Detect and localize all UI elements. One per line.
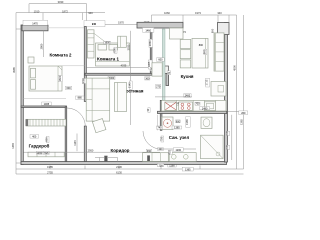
svg-text:940: 940 [88,11,93,15]
hall cabinet corridor [143,153,169,162]
shaft top right [218,23,230,35]
toilet bathroom [201,117,212,128]
dim line left vertical [11,13,21,174]
svg-text:800: 800 [199,44,204,47]
svg-text:1600: 1600 [58,75,62,81]
sink with X [165,102,177,110]
svg-text:1480: 1480 [202,107,208,110]
svg-text:2130: 2130 [116,165,122,169]
tall cabinet kitchen right [214,33,224,71]
dim 4035 living [86,61,150,68]
outer wall bottom [21,162,227,165]
dim vertical inside room1 [129,31,131,125]
vanity bathroom bottom [169,153,196,162]
armchair living (tilted) [92,119,106,133]
svg-text:1365: 1365 [185,168,191,171]
label 2060 rotated on wall [81,78,86,84]
dining table group [192,38,208,68]
svg-text:6130: 6130 [116,170,122,174]
label 420 [177,102,182,106]
svg-text:3030: 3030 [127,44,131,50]
dim line 2400 kitchen [155,96,192,98]
room2 bottom light line [23,97,66,99]
bed room2 [29,66,62,91]
svg-text:460: 460 [147,150,152,153]
svg-text:880: 880 [78,97,83,100]
shoe boxes wardrobe bottom [28,151,64,157]
svg-text:600: 600 [176,120,181,123]
wardrobe top wall [21,106,67,107]
kitchen upper cabinet [170,28,184,39]
bed room1 [87,30,129,66]
dim vertical corridor [73,134,77,152]
svg-text:600: 600 [45,137,49,142]
dim vertical short bath right [231,115,233,160]
svg-text:1200: 1200 [176,149,182,152]
svg-text:4500: 4500 [233,65,237,71]
svg-text:1985: 1985 [47,165,53,169]
svg-text:340: 340 [217,11,222,15]
window room2 (faint) [48,27,84,29]
label 460 boxed corridor [146,149,152,153]
svg-text:3030: 3030 [58,0,64,4]
label 740 boxed [156,126,162,130]
dim line top right [152,11,230,22]
svg-text:2060: 2060 [81,78,85,84]
entrance door [95,156,118,162]
svg-text:4035: 4035 [121,64,127,68]
label rotated bathroom [185,117,190,127]
outer wall top room2 [22,25,48,31]
wardrobe hanger rail [26,119,67,126]
washing machine bathroom [162,117,173,130]
svg-text:738: 738 [159,164,164,167]
svg-text:2860: 2860 [148,40,152,46]
svg-text:1365: 1365 [174,127,180,130]
label 880 on wall [75,96,84,100]
label 600 room2 [65,86,71,90]
outer wall left [21,25,23,165]
rotated label on kitchen wall lower [147,60,152,69]
label 1713 rotated kitchen [205,78,210,87]
closet column room1 left [87,30,94,58]
dim line right verticals [228,15,249,169]
svg-text:1365: 1365 [185,119,189,125]
svg-text:940: 940 [92,23,97,26]
svg-text:2950: 2950 [88,148,94,152]
chair room1 [118,36,127,47]
svg-text:1713: 1713 [205,79,209,85]
svg-text:1190: 1190 [169,165,175,168]
nightstand room2 [28,57,34,63]
dim line top row2 [16,9,105,20]
label 400 wardrobe [30,135,39,139]
label 270 right of band [167,71,171,75]
svg-text:3985: 3985 [12,67,16,73]
small table kitchen right [211,82,226,97]
bathroom left wall upper [160,100,162,130]
svg-text:1973: 1973 [195,11,201,15]
svg-text:1465: 1465 [11,142,15,148]
svg-text:1145: 1145 [73,140,77,146]
svg-text:600: 600 [113,48,117,53]
label 1480 below counter [200,107,210,111]
svg-text:1060: 1060 [164,11,170,15]
dim line top row3 (window room1) [105,20,137,24]
dining chairs [180,40,191,49]
label 270 lower stub [156,84,161,88]
shower [201,135,224,159]
kitchen tall cabinet band left [162,29,165,101]
outer wall top kitchen [137,22,183,28]
svg-text:1470: 1470 [32,22,38,25]
svg-text:2400: 2400 [185,95,191,98]
label 1465 after text [45,136,49,142]
label box 940 [84,21,105,27]
sofa living [86,78,110,121]
svg-text:740: 740 [157,127,162,130]
door arc room2 passage [67,108,85,127]
label 1600 on bed room1 [104,41,111,44]
svg-text:600: 600 [211,28,215,33]
door arc bathroom [143,131,162,149]
dim line bottom A [16,164,244,172]
dim corridor [24,148,161,152]
label 2400 kitchen [184,94,191,98]
svg-text:1970: 1970 [118,20,124,24]
wall kitchen/bathroom [158,111,227,113]
svg-text:270: 270 [156,86,161,89]
label 2860 rotated kitchen left wall [148,39,153,47]
pier between living and kitchen [153,66,169,74]
light line right of bed room2 [62,65,84,67]
svg-text:1465: 1465 [44,103,50,106]
svg-text:2755: 2755 [47,170,53,174]
label 360 on wall x151 [150,67,154,71]
bath wall corridor face light [157,115,159,131]
svg-text:1365: 1365 [240,119,244,125]
svg-text:1460: 1460 [145,29,151,32]
label box 1460 kitchen wall top [143,28,154,33]
svg-text:700: 700 [195,103,200,106]
label 1200 boxed [173,148,183,152]
fridge niche kitchen left [152,63,162,76]
label 420 boxed [158,148,163,152]
tv unit living [115,83,127,112]
label 1365 boxed top of bath [172,126,182,130]
label 600 boxed on band [157,58,164,62]
dim line bottom B [16,170,244,174]
svg-text:420: 420 [158,148,163,151]
svg-text:230: 230 [225,145,229,150]
label 1465 below bed [42,102,52,106]
door jamb label bath [159,136,163,142]
label 600 bathroom [176,120,181,123]
svg-text:230: 230 [225,131,229,136]
outer wall right [225,23,228,163]
kitchen counter bottom [162,100,226,111]
svg-text:1872: 1872 [62,9,68,13]
kitchen left wall [150,28,152,73]
svg-text:2145: 2145 [128,82,132,88]
label 360 below wall left [145,77,150,81]
svg-text:600: 600 [67,87,72,90]
appliance box [204,102,215,111]
right wall label boxes [225,131,230,136]
wall between room2 and room1 [84,27,86,102]
svg-text:1600: 1600 [104,42,110,45]
svg-text:410: 410 [167,150,171,155]
dim line 1200 bath [162,148,196,150]
wall living left lower [84,126,86,161]
wall room1 / living (horizontal) [85,73,152,75]
svg-text:750: 750 [159,136,163,141]
svg-text:Гардероб: Гардероб [29,144,50,149]
label 700 [195,102,200,106]
label box 1470 on top wall [23,20,48,25]
svg-text:600: 600 [158,59,163,62]
svg-text:360: 360 [145,77,150,80]
svg-text:1010: 1010 [34,9,40,13]
dim vertical inside room2 [42,31,44,57]
label 2060 living [108,76,115,80]
svg-text:1365: 1365 [147,61,151,67]
svg-text:400: 400 [32,136,37,139]
svg-text:Кухня: Кухня [181,74,194,79]
label 1600 on bed room2 [58,75,62,82]
svg-text:Комната 1: Комната 1 [97,57,119,62]
svg-text:260: 260 [241,112,246,115]
wardrobe right wall [65,107,67,162]
svg-text:2860: 2860 [40,43,44,49]
svg-text:Сан. узел: Сан. узел [169,135,190,140]
svg-text:800: 800 [202,49,206,54]
label 738 [157,163,163,167]
diagonal mark room1 [94,34,106,43]
dim line top row1 [29,0,87,24]
svg-text:Комната 2: Комната 2 [50,53,72,58]
wall stub x167 [166,74,169,86]
label rotated on living right wall [146,108,150,113]
stove 4 burners [179,102,193,110]
